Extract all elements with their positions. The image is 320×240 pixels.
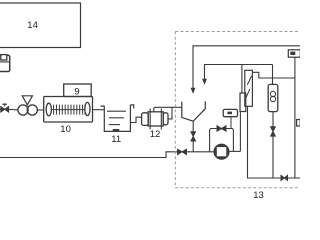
wire: pump outlet to riser: [230, 150, 241, 152]
circulation pump P1: [213, 144, 229, 160]
wire: column A top to feed header: [241, 64, 243, 93]
svg-text:12: 12: [150, 129, 161, 140]
wire: valve to gear pump: [9, 109, 18, 111]
level controller box (top right): [288, 50, 300, 57]
svg-text:13: 13: [253, 190, 264, 200]
funnel above gear pump: [22, 96, 32, 105]
pressure gauge box: [223, 109, 237, 116]
dashed enclosure 13: [175, 32, 300, 188]
extruder barrel 10: [44, 97, 93, 123]
wire: valve to pump inlet: [187, 151, 214, 153]
column A (short): [240, 93, 246, 112]
svg-text:11: 11: [111, 134, 121, 145]
wire: rotameter to valve: [272, 112, 274, 127]
hopper box 9: [64, 84, 91, 97]
rotameter valve V6: [271, 127, 276, 136]
wire: inlet line to valve: [0, 108, 1, 110]
svg-text:10: 10: [60, 124, 71, 135]
wire: 12 outlet riser: [168, 107, 172, 119]
wire: long bottom return line: [0, 152, 178, 158]
water bath 11: [101, 105, 134, 131]
hopper drain valve V3: [192, 121, 194, 132]
wire: bath to pelletizer 12: [130, 117, 141, 122]
mixing hopper (cone tank): [182, 101, 206, 121]
wire: header to rotameter: [272, 65, 274, 85]
column B (tall, with hatch): [245, 70, 253, 106]
drain valve V5: [281, 175, 288, 180]
pump bypass loop: [210, 129, 234, 152]
wire: gauge stem: [230, 117, 232, 129]
wire: valve down to drain line: [272, 136, 274, 178]
wire: extruder outlet to water bath: [93, 109, 105, 111]
valve V2 (before pump): [178, 149, 187, 154]
pellets at bath bottom: [113, 129, 120, 131]
feed arrow 2: [202, 65, 272, 85]
wire: gear pump to extruder: [37, 109, 43, 111]
pelletizer 12: [142, 109, 168, 130]
control cabinet 14: [0, 3, 81, 48]
svg-text:9: 9: [74, 87, 79, 98]
valve V1 (left inlet valve): [1, 104, 9, 112]
bypass valve V4: [217, 126, 226, 131]
wire: riser to column A: [239, 112, 241, 152]
gauge mark: [228, 112, 233, 115]
gear pump (two circles): [18, 105, 37, 115]
wire: column B top step to right header: [252, 72, 295, 78]
wire: right standpipe: [294, 57, 296, 178]
wire: 12 top vent to hopper: [154, 107, 182, 112]
side tap on standpipe: [297, 120, 301, 127]
screw ticks inside extruder: [52, 105, 86, 115]
feed bin: [0, 55, 10, 72]
feed arrow 1: [191, 46, 300, 93]
wire: column B bottom to drain line: [248, 106, 301, 178]
rotameter: [268, 84, 278, 111]
svg-text:14: 14: [27, 20, 38, 31]
